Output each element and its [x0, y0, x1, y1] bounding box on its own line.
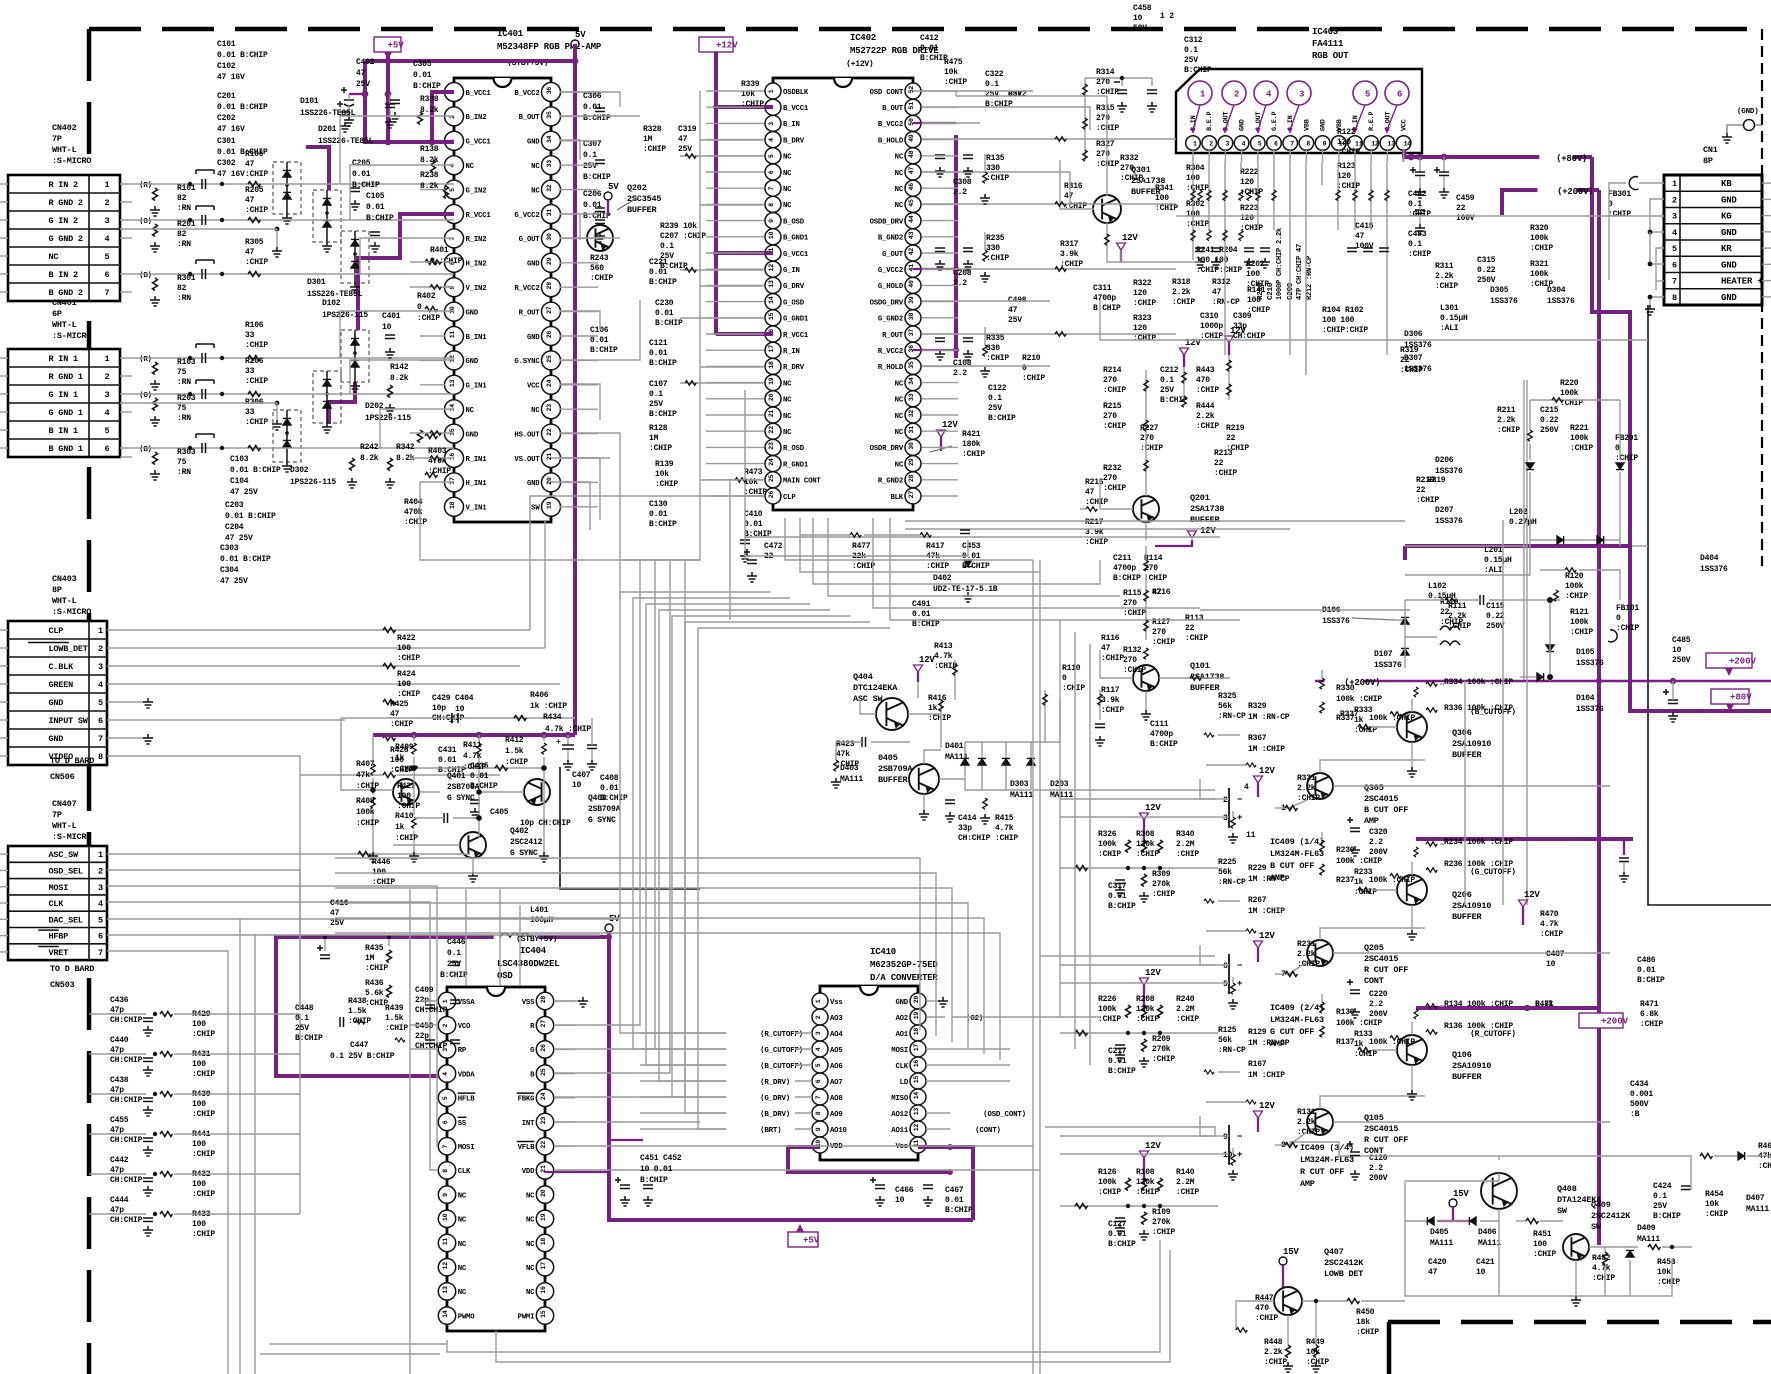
svg-text:B_VCC2: B_VCC2	[514, 90, 539, 98]
transistor Q206	[1397, 875, 1427, 905]
svg-text:8: 8	[442, 1169, 449, 1173]
svg-text:4: 4	[98, 899, 103, 909]
svg-text:270: 270	[1140, 434, 1154, 443]
svg-text:VS.OUT: VS.OUT	[514, 456, 540, 464]
svg-text:12V: 12V	[1122, 233, 1138, 243]
svg-text:1k: 1k	[395, 823, 405, 832]
svg-text::CHIP: :CHIP	[404, 518, 427, 527]
svg-text:250V: 250V	[1540, 426, 1559, 435]
svg-text:33: 33	[546, 160, 553, 168]
long verticals below G SYNC to bottom	[409, 889, 411, 1374]
svg-text:−: −	[1237, 795, 1242, 805]
svg-text:12V: 12V	[942, 420, 958, 430]
IC401 M52348FP RGB PRE-AMP	[445, 78, 561, 522]
svg-text:IC409 (1/4): IC409 (1/4)	[1270, 837, 1324, 847]
svg-text:C424: C424	[1653, 1182, 1672, 1191]
svg-text:R267: R267	[1248, 896, 1267, 905]
svg-text::CHIP: :CHIP	[1640, 1020, 1663, 1029]
svg-text:15V: 15V	[1453, 1189, 1469, 1199]
svg-text:B:CHIP: B:CHIP	[1113, 574, 1141, 583]
svg-text:Q408: Q408	[1557, 1184, 1577, 1194]
svg-text:Q206: Q206	[1452, 890, 1472, 900]
svg-text::CHIP: :CHIP	[1152, 1228, 1175, 1237]
svg-text:12V: 12V	[1200, 526, 1216, 536]
svg-text::CHIP: :CHIP	[1101, 654, 1124, 663]
svg-text::CHIP: :CHIP	[505, 758, 528, 767]
svg-text:R342: R342	[396, 443, 415, 452]
svg-text:1: 1	[98, 850, 103, 860]
svg-text:270: 270	[1096, 150, 1110, 159]
svg-text:100k :CHIP: 100k :CHIP	[1336, 1019, 1382, 1028]
arrow R421	[930, 446, 952, 452]
svg-text:C459: C459	[1456, 194, 1475, 203]
svg-text:1SS226-TE85L: 1SS226-TE85L	[307, 290, 363, 299]
svg-text:0.01: 0.01	[945, 1196, 964, 1205]
svg-text:Q404: Q404	[853, 672, 873, 682]
svg-text:270: 270	[1123, 599, 1137, 608]
svg-text:⟨BRT⟩: ⟨BRT⟩	[760, 1126, 782, 1135]
svg-text:9: 9	[1323, 140, 1327, 147]
svg-text:1SS376: 1SS376	[1490, 297, 1518, 306]
svg-text:GND: GND	[1239, 119, 1247, 131]
svg-text:R140: R140	[1176, 1168, 1195, 1177]
svg-text:B:CHIP: B:CHIP	[440, 971, 468, 980]
svg-text:56k: 56k	[1218, 868, 1232, 877]
svg-text:1PS226-115: 1PS226-115	[322, 311, 368, 320]
bottom right circuit wires	[1405, 1181, 1672, 1296]
svg-text:G.E.P: G.E.P	[1271, 111, 1279, 131]
svg-text::CHIP: :CHIP	[1408, 250, 1431, 259]
svg-text:(GND): (GND)	[1737, 108, 1759, 116]
R330 ladder resistors	[1320, 678, 1325, 689]
svg-text::CHIP: :CHIP	[1196, 386, 1219, 395]
svg-text:C322: C322	[985, 70, 1004, 79]
svg-text:2.2k: 2.2k	[1264, 1348, 1283, 1357]
transistor Q306	[1397, 712, 1427, 742]
R111 C115 net	[1445, 598, 1456, 603]
svg-text:R101: R101	[177, 184, 196, 193]
FB101 hook	[1608, 630, 1617, 642]
svg-text:10: 10	[1546, 960, 1556, 969]
transistor Q106	[1397, 1035, 1427, 1065]
svg-text:0.1: 0.1	[583, 151, 597, 160]
svg-text::CHIP: :CHIP	[245, 418, 268, 427]
svg-text:3: 3	[815, 1031, 822, 1035]
svg-text:8: 8	[98, 752, 103, 762]
svg-text::CHIP: :CHIP	[1062, 684, 1085, 693]
svg-text:B_OUT: B_OUT	[519, 114, 541, 122]
svg-text:D104: D104	[1576, 694, 1595, 703]
svg-text:GND: GND	[1721, 228, 1737, 238]
svg-text:R215: R215	[1103, 402, 1122, 411]
svg-text:R471: R471	[1640, 1000, 1659, 1009]
svg-text:4.7k :CHIP: 4.7k :CHIP	[545, 725, 591, 734]
svg-text:47: 47	[1101, 644, 1111, 653]
svg-text:8P: 8P	[1703, 156, 1713, 166]
svg-text:2SC2412: 2SC2412	[510, 838, 543, 847]
svg-text:⟨R_CUTOFF⟩: ⟨R_CUTOFF⟩	[1470, 1029, 1516, 1039]
svg-text::CHIP: :CHIP	[1592, 1274, 1615, 1283]
svg-text:R219: R219	[1416, 476, 1435, 485]
svg-text:L202: L202	[1509, 508, 1528, 517]
transistor Q402	[460, 832, 486, 858]
svg-text:28: 28	[908, 474, 915, 482]
svg-text:R223: R223	[1240, 204, 1259, 213]
svg-text:C204: C204	[225, 523, 244, 532]
svg-text:R473: R473	[744, 468, 763, 477]
svg-text:BUFFER: BUFFER	[627, 205, 658, 215]
svg-text:C467: C467	[945, 1186, 964, 1195]
svg-text:NC: NC	[526, 1265, 535, 1273]
svg-text:GND: GND	[466, 431, 479, 439]
svg-text:R332: R332	[1120, 154, 1139, 163]
svg-text:10: 10	[572, 781, 582, 790]
svg-text:100: 100	[1247, 296, 1261, 305]
svg-text:9: 9	[1223, 1133, 1228, 1142]
svg-text:KB: KB	[1721, 179, 1732, 189]
svg-text::CHIP: :CHIP	[1297, 1128, 1320, 1137]
svg-text:R121: R121	[1570, 608, 1589, 617]
long buses from right to left mid	[1100, 300, 1648, 340]
svg-text:R128: R128	[649, 424, 668, 433]
svg-text:0.01 B:CHIP: 0.01 B:CHIP	[217, 103, 268, 112]
svg-text:LOWB DET: LOWB DET	[1324, 1269, 1363, 1279]
svg-text:45: 45	[908, 199, 915, 207]
CN1 row wires	[1639, 182, 1664, 184]
svg-text:23: 23	[540, 1117, 547, 1125]
svg-text:CH:CHIP: CH:CHIP	[110, 1136, 143, 1145]
svg-text:100k :CHIP: 100k :CHIP	[1369, 714, 1415, 723]
svg-text:R231: R231	[1297, 940, 1316, 949]
IC402 M52722P RGB DRIVE	[765, 78, 921, 510]
svg-text:5: 5	[1258, 140, 1262, 147]
Q305 Q205 Q105 collector lines	[1320, 760, 1425, 773]
svg-text:C421: C421	[1476, 1258, 1495, 1267]
svg-text:1SS376: 1SS376	[1700, 565, 1728, 574]
svg-text:ASC SW: ASC SW	[853, 694, 884, 704]
svg-text:C442: C442	[110, 1156, 129, 1165]
svg-text:D306: D306	[1404, 330, 1423, 339]
transistor Q403	[524, 779, 550, 805]
svg-text::S-MICRO: :S-MICRO	[52, 832, 91, 842]
svg-text:0405: 0405	[878, 753, 898, 763]
svg-text:7P: 7P	[52, 810, 62, 820]
IC401 right side wires	[560, 92, 620, 107]
svg-text::CHIP: :CHIP	[836, 760, 859, 769]
svg-text:2.2k: 2.2k	[1297, 1118, 1316, 1127]
svg-text:GND: GND	[895, 999, 908, 1007]
svg-text:AO3: AO3	[830, 1015, 843, 1023]
svg-text:GND: GND	[1320, 119, 1328, 131]
+12V net IC402	[699, 37, 733, 52]
svg-text::CHIP: :CHIP	[1196, 422, 1219, 431]
svg-text:100k: 100k	[1530, 234, 1549, 243]
svg-text:200V: 200V	[1369, 1010, 1388, 1019]
svg-text:TO D BARD: TO D BARD	[50, 964, 94, 974]
svg-text:4.7k: 4.7k	[1540, 920, 1559, 929]
svg-text:GND: GND	[1721, 260, 1737, 270]
svg-text:R329: R329	[1248, 702, 1267, 711]
svg-text:10 0.01: 10 0.01	[640, 1165, 673, 1174]
svg-text:R219: R219	[1226, 424, 1245, 433]
svg-text:25V: 25V	[1160, 386, 1174, 395]
svg-text:47: 47	[245, 160, 255, 169]
wires CN403 rows	[107, 629, 125, 631]
svg-text:47k: 47k	[836, 750, 850, 759]
svg-text:4700p: 4700p	[1113, 564, 1136, 573]
svg-text::CHIP: :CHIP	[1540, 930, 1563, 939]
IC404 bottom wires	[447, 1340, 700, 1352]
svg-text:47 25V: 47 25V	[225, 534, 253, 543]
svg-text:33p: 33p	[1233, 322, 1247, 331]
svg-text:NC: NC	[783, 154, 792, 162]
svg-text:12: 12	[768, 264, 775, 272]
svg-text:47: 47	[1152, 588, 1162, 597]
extra long bottom horizontals	[700, 1240, 1160, 1352]
svg-text:560: 560	[590, 264, 604, 273]
long wire from IC409-3 out	[1289, 1142, 1499, 1156]
svg-text:0.01: 0.01	[920, 44, 939, 53]
svg-text:5: 5	[815, 1063, 822, 1067]
svg-text:C115: C115	[1486, 602, 1505, 611]
svg-text:R412: R412	[505, 736, 524, 745]
svg-text:25V: 25V	[1184, 56, 1198, 65]
svg-text:6: 6	[105, 444, 110, 454]
svg-text:100k: 100k	[1565, 582, 1584, 591]
svg-text:C401: C401	[382, 312, 401, 321]
svg-text:15: 15	[540, 1310, 547, 1318]
svg-text:100: 100	[192, 1100, 206, 1109]
svg-text::CHIP: :CHIP	[1176, 1188, 1199, 1197]
svg-text:42: 42	[908, 248, 915, 256]
transistor Q101	[1133, 665, 1159, 691]
sheet border left dashed	[87, 29, 92, 1374]
svg-text:6: 6	[1397, 90, 1402, 100]
svg-text::CHIP: :CHIP	[1060, 260, 1083, 269]
svg-text:1: 1	[1193, 140, 1197, 147]
diode pack D301	[341, 231, 369, 283]
svg-text:10: 10	[455, 705, 465, 714]
svg-text:MA111: MA111	[840, 775, 863, 784]
svg-text:2: 2	[442, 1024, 449, 1028]
svg-text::RN-CP: :RN-CP	[1218, 878, 1246, 887]
svg-text:CH:CHIP: CH:CHIP	[110, 1056, 143, 1065]
svg-text:R212 :RN-CP: R212 :RN-CP	[1306, 256, 1314, 300]
svg-text:R328: R328	[643, 125, 662, 134]
IC404 area symbols	[320, 955, 330, 959]
svg-text:R104 R102: R104 R102	[1322, 306, 1364, 315]
svg-text:1: 1	[1200, 90, 1206, 100]
svg-text:47: 47	[330, 909, 340, 918]
svg-text:2SB709A: 2SB709A	[878, 764, 913, 774]
connector CN407 7P	[8, 846, 107, 960]
svg-text:1: 1	[105, 180, 110, 190]
svg-text:30: 30	[908, 442, 915, 450]
svg-text:R403: R403	[428, 447, 447, 456]
svg-text:GREEN: GREEN	[49, 680, 74, 690]
svg-text:5V: 5V	[575, 30, 586, 40]
svg-text:14: 14	[913, 1092, 920, 1100]
svg-text::CHIP: :CHIP	[1123, 666, 1146, 675]
svg-text:10p: 10p	[432, 704, 446, 713]
svg-text:0.15μH: 0.15μH	[1484, 556, 1512, 565]
svg-text:NC: NC	[458, 1192, 467, 1200]
svg-text:R_DRV: R_DRV	[783, 364, 805, 372]
svg-text:OSDBLK: OSDBLK	[783, 89, 809, 97]
left edge long verticals from CN403 rows going down	[299, 770, 301, 1010]
svg-text:R GND 1: R GND 1	[49, 372, 83, 382]
12V feeds mid	[1183, 367, 1185, 400]
svg-text:R232: R232	[1103, 464, 1122, 473]
svg-text:INT: INT	[522, 1120, 535, 1128]
svg-text:CH:CHIP: CH:CHIP	[110, 1176, 143, 1185]
svg-text:47: 47	[245, 248, 255, 257]
C402 C305 caps on +5V	[349, 93, 365, 95]
svg-text:Q106: Q106	[1452, 1050, 1472, 1060]
svg-text::S-MICRO: :S-MICRO	[52, 331, 91, 341]
purple net to R_VCC1 and diode packs	[358, 214, 454, 330]
svg-text:C212: C212	[1160, 366, 1179, 375]
caps right of IC402	[935, 155, 945, 159]
svg-text:0.01: 0.01	[649, 510, 668, 519]
svg-text:5: 5	[98, 698, 103, 708]
svg-text:CN506: CN506	[50, 772, 75, 782]
svg-text:C302: C302	[217, 159, 236, 168]
svg-text:C472: C472	[764, 542, 783, 551]
svg-text::CHIP: :CHIP	[356, 782, 379, 791]
svg-text:1SS376: 1SS376	[1374, 661, 1402, 670]
svg-text:47: 47	[1212, 288, 1222, 297]
svg-text:3.9k: 3.9k	[1060, 250, 1079, 259]
+200V net	[1502, 190, 1599, 215]
svg-text:B CUT OFF: B CUT OFF	[1364, 805, 1408, 815]
svg-text:C404: C404	[455, 694, 474, 703]
svg-text:18: 18	[913, 1028, 920, 1036]
svg-text:B:CHIP: B:CHIP	[1653, 1212, 1681, 1221]
svg-text:ASC_SW: ASC_SW	[49, 850, 80, 860]
svg-text:13: 13	[1387, 140, 1395, 147]
svg-text:⟨B⟩: ⟨B⟩	[139, 445, 152, 454]
svg-text::CHIP: :CHIP	[192, 1030, 215, 1039]
G SYNC supply purple	[373, 733, 575, 737]
svg-text:0: 0	[1062, 674, 1067, 683]
svg-text:R141: R141	[1247, 286, 1266, 295]
svg-text:B_IN: B_IN	[783, 121, 800, 129]
svg-text:B:CHIP: B:CHIP	[649, 359, 677, 368]
svg-text:MA111: MA111	[1746, 1205, 1769, 1214]
svg-text:33: 33	[245, 331, 255, 340]
svg-text:MA111: MA111	[1478, 1239, 1501, 1248]
svg-text::CHIP: :CHIP	[1570, 444, 1593, 453]
svg-text::CHIP: :CHIP	[1022, 374, 1045, 383]
svg-text:R_VCC2: R_VCC2	[878, 348, 903, 356]
svg-text:VCC: VCC	[1401, 119, 1409, 131]
svg-text:28: 28	[546, 282, 553, 290]
12V to Q404	[917, 682, 919, 698]
svg-text:R205: R205	[245, 186, 264, 195]
svg-text::CHIP: :CHIP	[1103, 422, 1126, 431]
svg-text:1M :CHIP: 1M :CHIP	[1248, 745, 1285, 754]
svg-text:12V: 12V	[1524, 890, 1540, 900]
svg-text:R338: R338	[420, 95, 439, 104]
svg-text:100 100: 100 100	[1196, 256, 1229, 265]
svg-text:33: 33	[245, 408, 255, 417]
svg-text:21: 21	[768, 410, 775, 418]
ladder links to opamps	[1033, 789, 1215, 791]
IC402 left small resistors	[685, 154, 696, 159]
svg-text:20: 20	[546, 477, 553, 485]
svg-text:10k: 10k	[944, 68, 958, 77]
svg-text:1000p: 1000p	[1200, 322, 1223, 331]
svg-text:R167: R167	[1248, 1060, 1267, 1069]
svg-text:6.8k: 6.8k	[1535, 1000, 1554, 1009]
svg-text:120: 120	[1133, 289, 1147, 298]
svg-text:1 2: 1 2	[1160, 12, 1174, 21]
svg-text:R.E.P: R.E.P	[1368, 111, 1376, 131]
svg-text:0.01 B:CHIP: 0.01 B:CHIP	[225, 512, 276, 521]
svg-text:FA4111: FA4111	[1312, 39, 1344, 49]
svg-text::CHIP: :CHIP	[1152, 1055, 1175, 1064]
svg-text:R439: R439	[385, 1004, 404, 1013]
svg-text::CHIP: :CHIP	[245, 377, 268, 386]
svg-text:21: 21	[546, 453, 553, 461]
svg-text:NC: NC	[895, 380, 904, 388]
svg-text:16: 16	[913, 1060, 920, 1068]
svg-text:NC: NC	[526, 1241, 535, 1249]
svg-text:1M :RN-CP: 1M :RN-CP	[1248, 713, 1290, 722]
svg-text:C420: C420	[1428, 1258, 1447, 1267]
svg-text::CHIP: :CHIP	[1176, 850, 1199, 859]
svg-text:G_OUT: G_OUT	[882, 251, 904, 259]
svg-text::CHIP: :CHIP	[1657, 1278, 1680, 1287]
svg-text:R301: R301	[177, 274, 196, 283]
svg-text::CHIP: :CHIP	[1185, 634, 1208, 643]
svg-text:D406: D406	[1478, 1228, 1497, 1237]
svg-text:C483: C483	[1408, 230, 1427, 239]
svg-text:HEATER +: HEATER +	[1721, 277, 1763, 287]
svg-text:5V: 5V	[608, 182, 619, 192]
svg-text:82: 82	[177, 194, 187, 203]
svg-text:0.1: 0.1	[1160, 376, 1174, 385]
svg-text::CHIP: :CHIP	[1214, 469, 1237, 478]
svg-text:R425: R425	[390, 700, 409, 709]
R220 R221 area wires	[1530, 399, 1620, 401]
svg-text::CHIP: :CHIP	[986, 174, 1009, 183]
svg-text:25: 25	[540, 1068, 547, 1076]
svg-text:19: 19	[540, 1213, 547, 1221]
svg-text:D105: D105	[1576, 648, 1595, 657]
svg-text:100k: 100k	[1530, 270, 1549, 279]
svg-text:4: 4	[105, 234, 110, 244]
svg-text:CLK: CLK	[49, 899, 65, 909]
svg-text:MA111: MA111	[1637, 1235, 1660, 1244]
svg-text:2SA1738: 2SA1738	[1190, 504, 1224, 514]
svg-text:G_IN: G_IN	[783, 267, 800, 275]
svg-text:⟨G⟩: ⟨G⟩	[139, 391, 152, 400]
svg-text:⟨G_CUTOFF⟩: ⟨G_CUTOFF⟩	[1470, 867, 1516, 877]
svg-text:CLK: CLK	[458, 1168, 471, 1176]
svg-text:R105: R105	[245, 150, 264, 159]
long mid horizontals	[905, 520, 1405, 522]
svg-text:C444: C444	[110, 1196, 129, 1205]
svg-text:H_IN1: H_IN1	[466, 480, 488, 488]
svg-text:100k: 100k	[1570, 434, 1589, 443]
svg-text:32: 32	[908, 410, 915, 418]
svg-text:33: 33	[245, 367, 255, 376]
G.SYNC route	[559, 359, 561, 361]
svg-text:R462: R462	[1758, 1142, 1771, 1151]
svg-text:⟨R⟩: ⟨R⟩	[139, 181, 152, 190]
